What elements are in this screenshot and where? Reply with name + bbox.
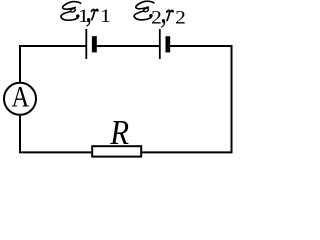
svg-text:,: , [85,0,92,29]
svg-text:A: A [12,80,30,113]
svg-text:,: , [160,0,167,30]
svg-text:2: 2 [175,7,186,28]
svg-text:1: 1 [100,7,111,27]
svg-text:R: R [109,114,129,152]
